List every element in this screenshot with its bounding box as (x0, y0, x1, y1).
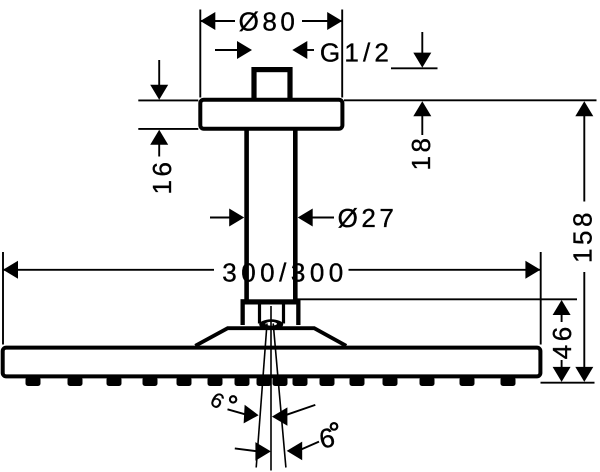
dim G1/2 arrow left (237, 41, 252, 59)
dim 18 arrow up (413, 101, 431, 116)
dim 46 arrow down (553, 367, 571, 382)
dim O27 right leader (311, 217, 334, 219)
dim 300/300 arrow left (3, 261, 18, 279)
dim 300/300 arrow right (525, 261, 540, 279)
dim O27 arrow right (298, 209, 313, 227)
dim O27 left leader (210, 217, 232, 219)
angle 6deg lower-right leader (301, 442, 320, 450)
dim 300/300 line left segment (3, 269, 214, 271)
dim 18 text (406, 135, 436, 171)
nut left side (241, 299, 245, 325)
dim O80 line left segment (200, 20, 235, 22)
dim 300/300 line right segment (349, 269, 541, 271)
dim 158 arrow up (575, 101, 593, 116)
dim 300/300 right extension line (540, 252, 542, 345)
dim 46 top reference line (296, 298, 578, 300)
svg-text:Ø80: Ø80 (239, 7, 299, 37)
ball outlet (259, 319, 283, 329)
dim 300/300 left extension line (2, 252, 4, 345)
svg-text:46: 46 (547, 323, 577, 359)
angle 6deg lower-left leader (235, 448, 257, 451)
ceiling flange (200, 100, 342, 129)
nut right side (296, 299, 300, 325)
nut facet line right (282, 304, 285, 324)
dim 158 text (568, 209, 598, 263)
angle 6deg upper-left leader (228, 409, 247, 414)
spray line left 6deg (256, 324, 267, 468)
dim O80 right extension line (341, 10, 343, 98)
cone escutcheon (195, 328, 346, 346)
dim 46 text (547, 323, 577, 359)
dim 18 lower stem (421, 116, 423, 135)
dim 46 arrow up (553, 300, 571, 315)
spray line right 6deg (273, 324, 286, 468)
dim 16 arrow down (150, 85, 168, 100)
pipe right wall (293, 130, 298, 300)
dim 16 text (147, 159, 177, 195)
dim 158 lower stem (583, 272, 585, 367)
dim 18 arrow down (413, 53, 431, 68)
dim 46 upper stem (561, 315, 563, 322)
svg-text:158: 158 (568, 209, 598, 263)
dim G1/2 right leader (306, 49, 314, 51)
dim O80 line right segment (302, 20, 342, 22)
angle 6deg lower label (317, 421, 341, 454)
nozzle tabs (26, 377, 516, 386)
svg-text:300/300: 300/300 (222, 258, 347, 288)
dim O80 left extension line (199, 10, 201, 98)
dim O27 arrow left (229, 209, 244, 227)
dim 18 top reference line (391, 67, 438, 69)
dim 16 lower extension line (138, 128, 198, 130)
ceiling line right of flange (344, 99, 597, 101)
dim O80 arrow right (327, 12, 342, 30)
dim 46 lower stem (561, 360, 563, 367)
angle 6deg lower-left arrow (255, 442, 271, 461)
angle 6deg upper-right leader (287, 405, 316, 415)
spray center line (270, 306, 272, 471)
dim G1/2 left leader (215, 49, 240, 51)
nut facet line left (258, 304, 261, 324)
dim 16 upper stem (158, 60, 160, 86)
svg-text:G1/2: G1/2 (320, 38, 393, 68)
angle 6deg lower-right arrow (287, 442, 303, 461)
angle 6deg upper label (206, 388, 231, 416)
nut top bar (241, 299, 301, 304)
pipe left wall (244, 130, 249, 300)
angle 6deg upper-left arrow (244, 405, 259, 424)
dim 16 lower stem (158, 145, 160, 157)
svg-text:Ø27: Ø27 (338, 203, 398, 233)
svg-text:18: 18 (406, 135, 436, 171)
dim 16 arrow up (150, 130, 168, 145)
dim O80 arrow left (200, 12, 215, 30)
dim 18 upper stem (421, 32, 423, 54)
dim 158 arrow down (575, 367, 593, 382)
dim 158 upper stem (583, 116, 585, 202)
dim 46 bottom reference line (541, 382, 595, 384)
dim 16 upper extension line (138, 99, 198, 101)
angle 6deg upper-right arrow (272, 407, 288, 425)
svg-text:16: 16 (147, 159, 177, 195)
dim G1/2 arrow right (292, 41, 307, 59)
thread connector G1/2 (254, 70, 290, 102)
shower head plate (3, 348, 541, 377)
